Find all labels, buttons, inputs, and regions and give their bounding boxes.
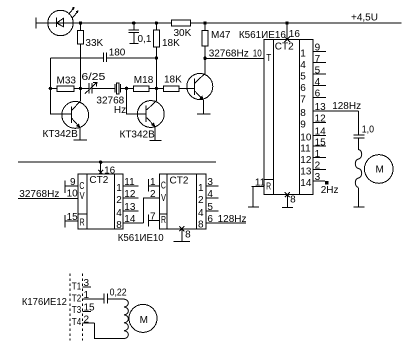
svg-text:10: 10 (300, 133, 312, 144)
svg-text:15: 15 (67, 212, 79, 223)
svg-text:T1: T1 (72, 282, 82, 293)
svg-text:2: 2 (315, 161, 321, 172)
svg-text:8: 8 (185, 230, 191, 241)
svg-text:CT2: CT2 (89, 175, 108, 186)
svg-text:1: 1 (116, 183, 122, 194)
svg-text:9: 9 (315, 43, 321, 54)
svg-text:1,0: 1,0 (362, 124, 375, 135)
svg-text:15: 15 (315, 137, 327, 148)
svg-text:1: 1 (315, 149, 321, 160)
svg-text:1: 1 (198, 183, 204, 194)
svg-text:2: 2 (84, 314, 90, 325)
svg-text:18K: 18K (164, 75, 182, 86)
svg-text:4: 4 (198, 208, 204, 219)
svg-text:7: 7 (150, 212, 156, 223)
svg-text:T2: T2 (72, 294, 82, 305)
svg-text:T4: T4 (72, 317, 82, 328)
svg-text:R: R (266, 181, 271, 192)
svg-text:3: 3 (84, 278, 90, 289)
svg-text:7: 7 (315, 54, 321, 65)
svg-text:Hz: Hz (114, 105, 126, 116)
svg-text:128Hz: 128Hz (218, 214, 247, 225)
svg-text:M33: M33 (57, 75, 77, 86)
svg-text:12: 12 (315, 114, 327, 125)
svg-text:18K: 18K (162, 38, 180, 49)
svg-text:M47: M47 (211, 30, 231, 41)
svg-text:14: 14 (124, 214, 136, 225)
svg-text:6/25: 6/25 (81, 72, 106, 83)
svg-text:11: 11 (300, 143, 311, 154)
svg-text:15: 15 (84, 303, 96, 314)
svg-text:11: 11 (255, 177, 266, 188)
svg-text:14: 14 (300, 178, 312, 189)
svg-text:11: 11 (124, 177, 135, 188)
svg-text:+4,5U: +4,5U (351, 13, 378, 24)
svg-text:К561ИЕ10: К561ИЕ10 (118, 233, 164, 244)
svg-text:13: 13 (315, 102, 327, 113)
svg-text:13: 13 (124, 202, 136, 213)
svg-text:32768Hz: 32768Hz (209, 49, 249, 60)
svg-text:13: 13 (300, 167, 312, 178)
svg-text:6: 6 (207, 214, 213, 225)
svg-text:4: 4 (300, 60, 306, 71)
svg-text:CT2: CT2 (275, 42, 294, 53)
svg-text:8: 8 (116, 220, 122, 231)
svg-text:КТ342В: КТ342В (120, 129, 156, 140)
svg-text:V: V (161, 193, 166, 204)
svg-text:4: 4 (116, 208, 122, 219)
svg-text:R: R (161, 215, 166, 226)
svg-text:10: 10 (67, 189, 79, 200)
svg-text:5: 5 (315, 65, 321, 76)
svg-text:4: 4 (315, 77, 321, 88)
svg-text:9: 9 (70, 177, 76, 188)
svg-text:V: V (80, 191, 85, 202)
svg-text:R: R (80, 217, 85, 228)
svg-text:КТ342В: КТ342В (43, 129, 79, 140)
svg-text:M18: M18 (134, 75, 154, 86)
svg-text:3: 3 (315, 172, 321, 183)
svg-text:T3: T3 (72, 305, 82, 316)
svg-text:128Hz: 128Hz (332, 101, 361, 112)
svg-text:2: 2 (150, 189, 156, 200)
svg-text:2: 2 (116, 195, 122, 206)
svg-text:16: 16 (289, 29, 301, 40)
svg-text:8: 8 (300, 108, 306, 119)
svg-text:12: 12 (124, 189, 136, 200)
svg-text:CT2: CT2 (170, 176, 189, 187)
svg-text:33K: 33K (85, 38, 103, 49)
svg-text:К176ИЕ12: К176ИЕ12 (22, 297, 67, 308)
svg-text:7: 7 (300, 95, 306, 106)
svg-text:180: 180 (109, 48, 126, 59)
svg-text:1: 1 (84, 290, 90, 301)
svg-text:8: 8 (198, 220, 204, 231)
svg-text:9: 9 (300, 120, 306, 131)
svg-text:32768Hz: 32768Hz (19, 189, 59, 200)
svg-text:6: 6 (315, 89, 321, 100)
svg-text:T: T (266, 53, 271, 64)
svg-text:2Hz: 2Hz (321, 185, 339, 196)
svg-text:12: 12 (300, 155, 312, 166)
svg-text:10: 10 (253, 49, 262, 60)
svg-text:M: M (140, 315, 148, 326)
svg-text:C: C (161, 181, 166, 192)
svg-text:14: 14 (315, 127, 327, 138)
svg-text:0,22: 0,22 (110, 288, 127, 299)
svg-text:4: 4 (207, 189, 213, 200)
svg-text:M: M (376, 165, 384, 176)
svg-text:3: 3 (207, 177, 213, 188)
svg-text:5: 5 (300, 71, 306, 82)
svg-text:5: 5 (207, 202, 213, 213)
svg-text:0,1: 0,1 (138, 34, 152, 45)
svg-text:1: 1 (300, 49, 306, 60)
svg-text:2: 2 (198, 195, 204, 206)
svg-text:8: 8 (290, 194, 296, 205)
svg-text:1: 1 (150, 177, 156, 188)
svg-text:6: 6 (300, 83, 306, 94)
